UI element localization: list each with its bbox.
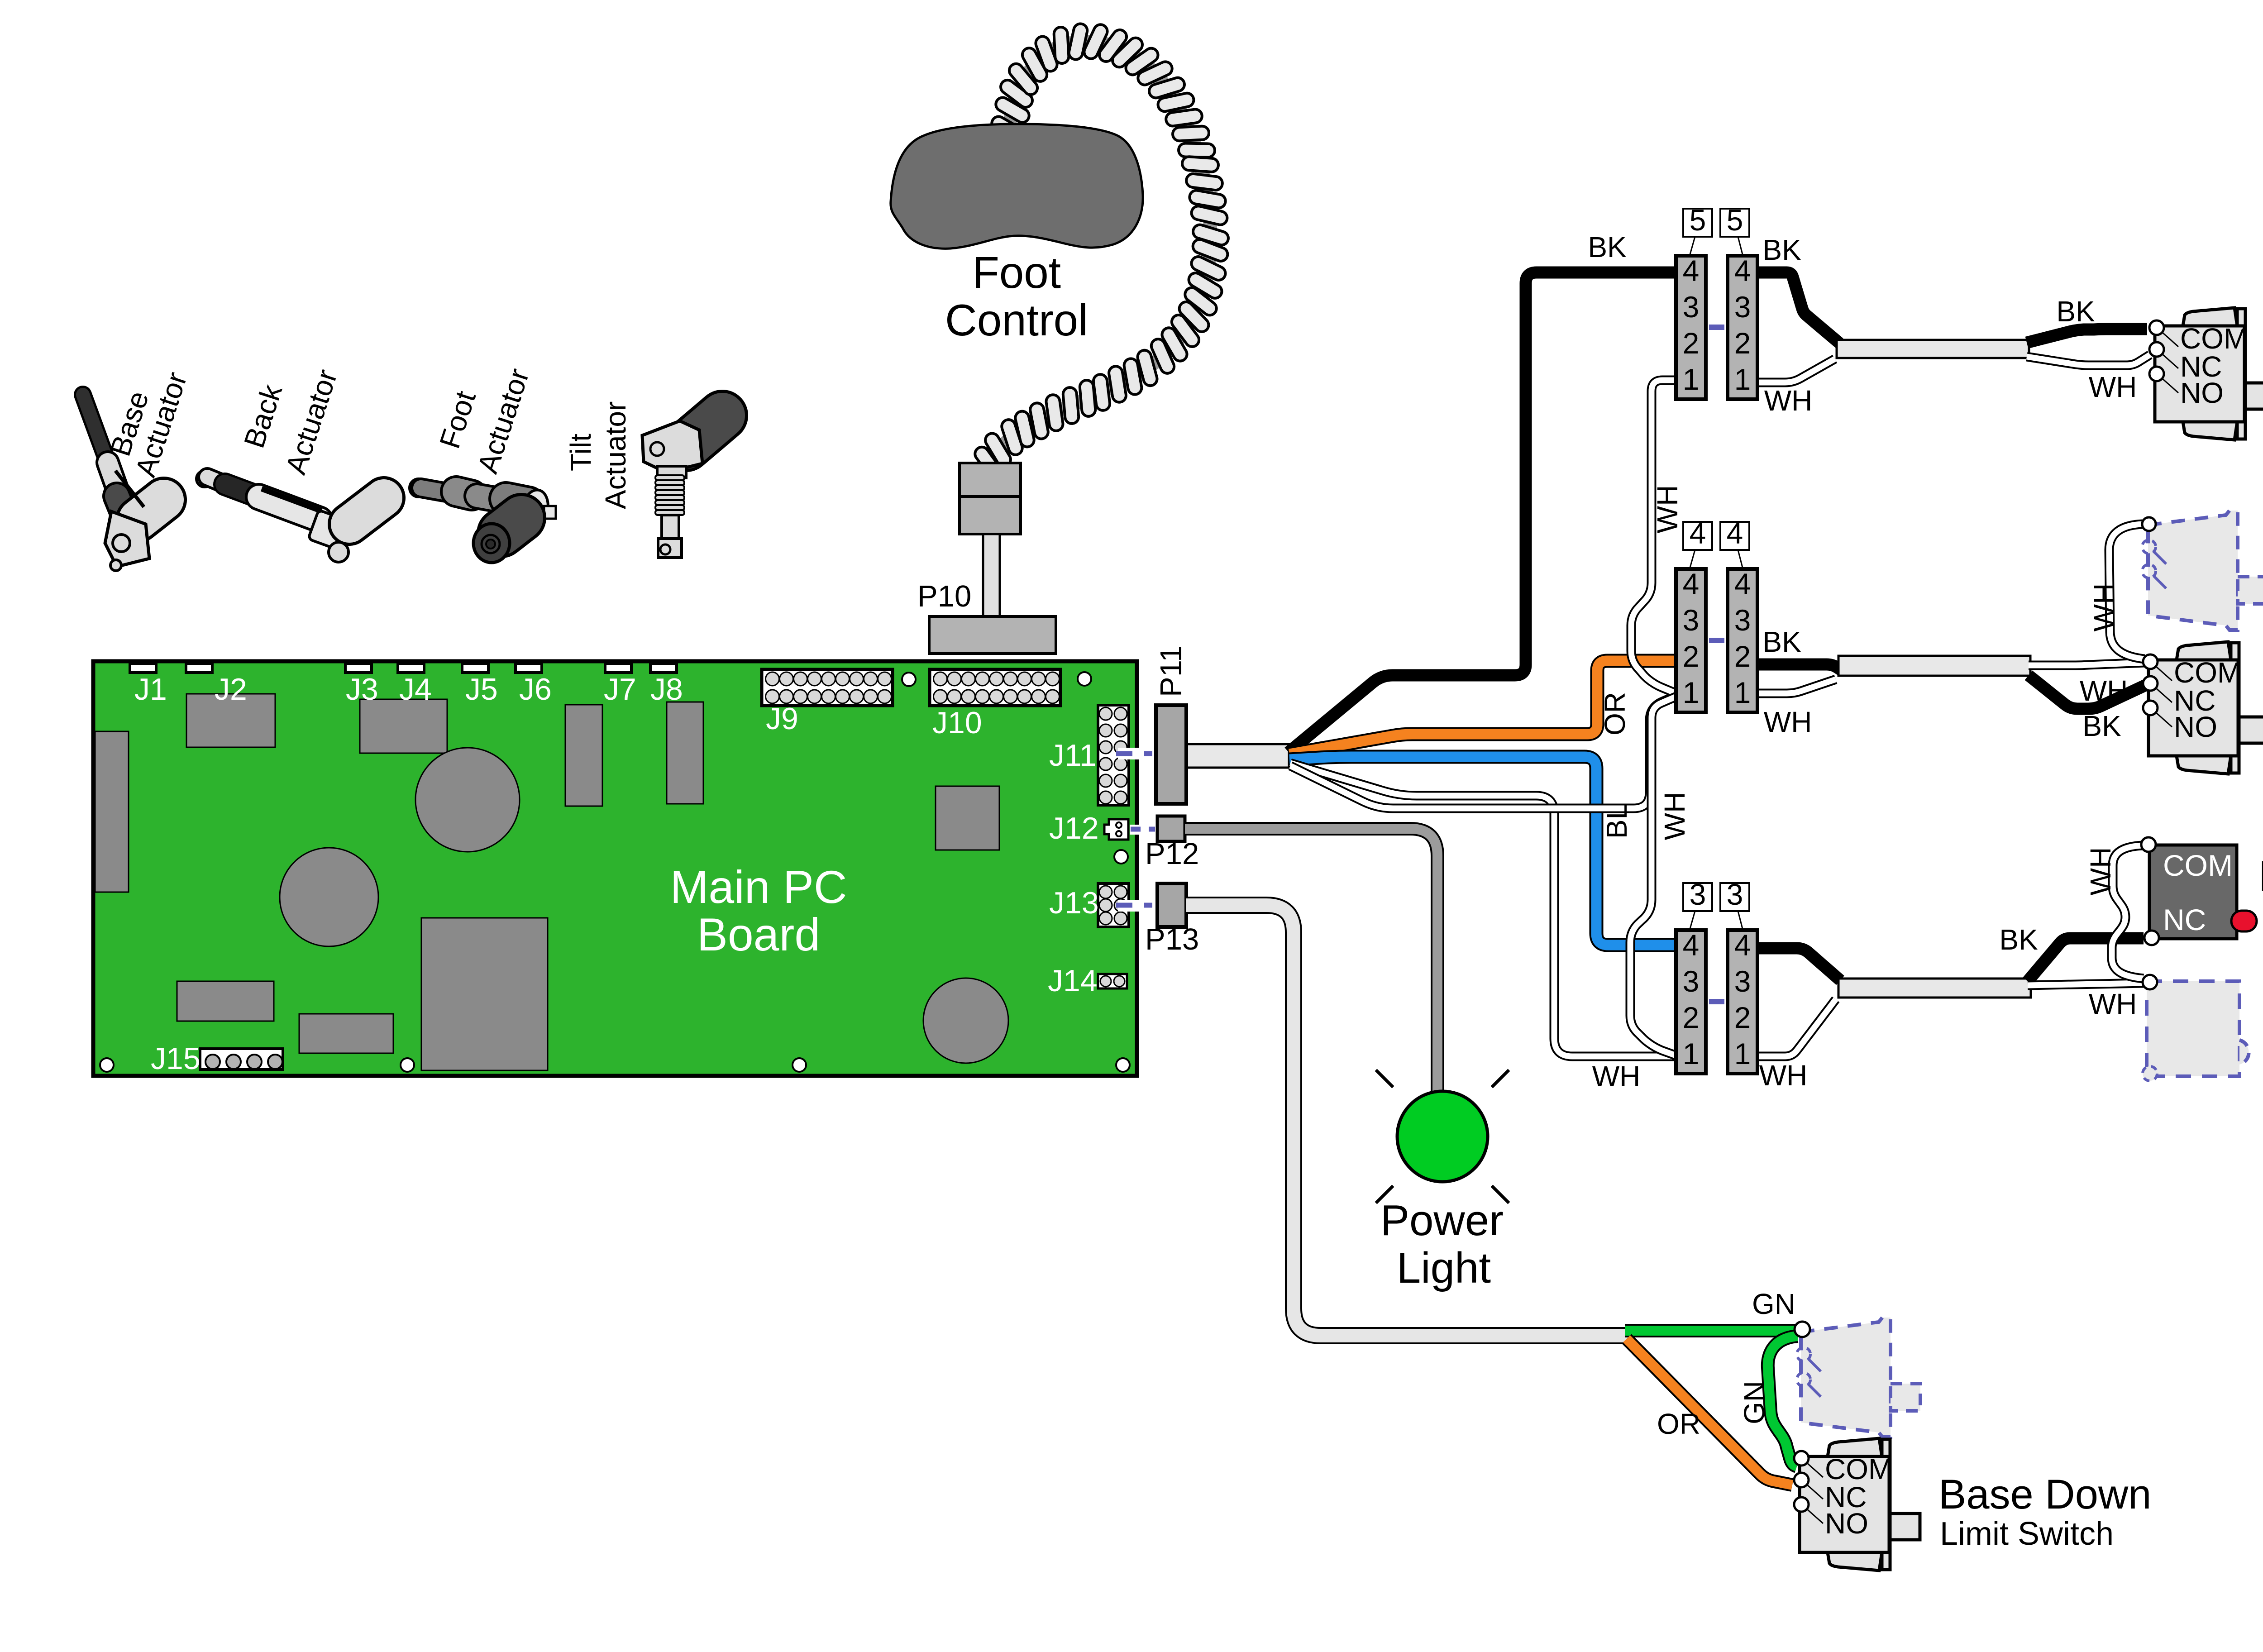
svg-text:Control: Control	[945, 295, 1088, 345]
svg-text:4: 4	[1683, 567, 1700, 601]
base down limit switch terminal COM	[1794, 1451, 1809, 1466]
svg-text:BL: BL	[1600, 803, 1633, 839]
svg-text:Foot Down: Foot Down	[2260, 668, 2263, 716]
svg-text:J5: J5	[465, 672, 498, 707]
svg-text:3: 3	[1683, 290, 1700, 324]
J11-P11 mating indicator	[1118, 748, 1156, 759]
svg-text:WH: WH	[1658, 792, 1691, 840]
mating dash 4	[1709, 638, 1724, 643]
J13-P13 mating indicator	[1118, 900, 1156, 912]
svg-text:Base Down: Base Down	[1938, 1471, 2151, 1518]
svg-text:WH: WH	[2080, 674, 2128, 707]
connector J6	[516, 664, 542, 673]
foot down limit switch terminal NO	[2143, 701, 2158, 715]
svg-text:OR: OR	[1657, 1408, 1700, 1440]
base actuator	[83, 395, 164, 571]
svg-text:WH: WH	[1651, 485, 1684, 534]
wire WH from P11 to connector 4 pin 1	[1290, 695, 1677, 808]
connector J3	[345, 664, 372, 673]
connector pair 3 right housing	[1728, 930, 1757, 1074]
wire WH foot cable to COM	[2029, 663, 2144, 665]
back up limit switch body	[2149, 845, 2237, 939]
id box 5 left	[1683, 209, 1712, 237]
tilt down limit switch plunger	[2245, 383, 2263, 409]
svg-text:P13: P13	[1145, 922, 1199, 956]
tilt down limit switch terminal NO	[2149, 367, 2164, 381]
svg-text:J11: J11	[1049, 738, 1097, 773]
connector J9	[762, 669, 893, 706]
connector J12	[1104, 819, 1128, 840]
svg-text:3: 3	[1690, 878, 1706, 911]
mating dash 5	[1709, 325, 1724, 330]
back switch cable	[1838, 979, 2031, 998]
tilt down limit switch terminal NC	[2149, 342, 2164, 357]
svg-text:J14: J14	[1048, 964, 1098, 998]
svg-text:1: 1	[1734, 1037, 1751, 1070]
svg-text:J6: J6	[519, 672, 552, 707]
svg-text:WH: WH	[2088, 583, 2120, 632]
svg-text:NO: NO	[2174, 711, 2217, 743]
svg-text:GN: GN	[1738, 1381, 1771, 1424]
svg-text:Back Up: Back Up	[2258, 852, 2263, 900]
wire gray from P12 to power light	[1185, 829, 1437, 1095]
svg-text:Tilt: Tilt	[564, 434, 597, 471]
base down limit switch top flap	[1828, 1438, 1882, 1456]
svg-text:J2: J2	[215, 672, 247, 707]
svg-text:1: 1	[1683, 363, 1700, 396]
id leader lines 4	[1690, 550, 1695, 568]
svg-text:2: 2	[1683, 1001, 1700, 1034]
svg-text:2: 2	[1734, 640, 1751, 673]
svg-text:2: 2	[1683, 640, 1700, 673]
svg-text:Actuator: Actuator	[599, 401, 632, 509]
foot down limit switch terminal COM	[2143, 654, 2158, 669]
connector J14	[1098, 974, 1127, 988]
id box 4 left	[1683, 522, 1712, 550]
svg-text:J8: J8	[650, 672, 683, 707]
base down limit switch bottom flap	[1828, 1552, 1882, 1571]
power light	[1397, 1091, 1488, 1182]
wire WH jumper connector 4 pin 1 to connector 3 pin 1	[1630, 696, 1678, 1056]
foot control pad	[891, 124, 1143, 248]
svg-text:WH: WH	[1764, 706, 1812, 738]
svg-text:3: 3	[1734, 603, 1751, 637]
connector pair 4 right housing	[1728, 569, 1757, 712]
svg-text:BK: BK	[1999, 923, 2038, 956]
connector pair 5 right housing	[1728, 256, 1757, 399]
svg-text:3: 3	[1683, 964, 1700, 998]
connector P11	[1156, 705, 1186, 804]
connector J10	[930, 669, 1060, 706]
base down limit switch plunger	[1890, 1514, 1920, 1540]
wire WH connector 3 to back cable	[1756, 999, 1836, 1056]
ghost switch foot down alt position	[2148, 511, 2238, 630]
foot switch cable	[1838, 656, 2030, 676]
back up red button	[2231, 911, 2257, 931]
svg-text:BK: BK	[1588, 231, 1626, 263]
foot down limit switch terminal NC	[2143, 676, 2158, 691]
wire gray from P13 to base down split	[1186, 905, 1628, 1336]
connector P10	[929, 616, 1056, 654]
svg-text:NO: NO	[2180, 377, 2224, 409]
svg-text:WH: WH	[2089, 988, 2137, 1020]
svg-text:J13: J13	[1049, 886, 1099, 920]
svg-text:NC: NC	[2163, 903, 2206, 936]
wire GN loop to base down COM	[1768, 1336, 1798, 1466]
id box 4 right	[1720, 522, 1749, 550]
wire WH from P11 outer run to connector 3 pin 1	[1290, 763, 1677, 1056]
ghost switch base down alt position	[1801, 1318, 1891, 1437]
back actuator	[196, 471, 384, 562]
wire OR from P11 to connector 4 pin 2	[1289, 661, 1678, 754]
svg-text:P10: P10	[917, 579, 971, 613]
tilt down limit switch bottom flap	[2183, 422, 2237, 440]
svg-text:4: 4	[1690, 516, 1706, 550]
connector J1	[130, 664, 156, 673]
back ghost WH terminal	[2143, 975, 2157, 989]
foot down limit switch right bar	[2231, 643, 2239, 773]
foot control cord connector	[960, 463, 1021, 497]
main PC board	[93, 661, 1137, 1076]
svg-text:Power: Power	[1380, 1196, 1504, 1245]
svg-text:5: 5	[1727, 203, 1743, 237]
svg-text:4: 4	[1727, 516, 1743, 550]
svg-text:J7: J7	[604, 672, 636, 707]
connector J15	[200, 1049, 283, 1070]
svg-text:4: 4	[1734, 567, 1751, 601]
wire WH loop foot COM to ghost	[2109, 524, 2144, 659]
svg-text:1: 1	[1734, 676, 1751, 709]
tilt switch cable	[1837, 340, 2029, 358]
svg-text:BK: BK	[2056, 295, 2095, 328]
id box 5 right	[1720, 209, 1749, 237]
wire OR to base down NC	[1627, 1339, 1792, 1485]
svg-text:P12: P12	[1145, 837, 1199, 871]
base down limit switch terminal NC	[1794, 1473, 1809, 1487]
wire BK connector 3 to back cable	[1756, 948, 1840, 980]
svg-text:COM: COM	[2163, 849, 2233, 882]
wire BK connector 4 to foot cable	[1756, 664, 1842, 671]
tilt actuator	[642, 415, 722, 558]
svg-text:J1: J1	[134, 672, 167, 707]
tilt down limit switch right bar	[2237, 309, 2245, 439]
svg-text:4: 4	[1683, 928, 1700, 962]
wire BK connector 5 to tilt cable	[1756, 272, 1839, 343]
svg-text:BK: BK	[1762, 234, 1801, 266]
J12-P12 mating indicator	[1130, 825, 1156, 835]
wire WH tilt cable to NC	[2027, 355, 2150, 365]
svg-text:BK: BK	[2082, 710, 2121, 742]
svg-text:4: 4	[1734, 928, 1751, 962]
foot down limit switch bottom flap	[2177, 756, 2231, 774]
svg-text:WH: WH	[1759, 1059, 1808, 1092]
svg-text:1: 1	[1734, 363, 1751, 396]
connector J7	[605, 664, 631, 673]
wire BK foot cable to NC	[2029, 675, 2145, 709]
foot down limit switch body	[2148, 660, 2238, 756]
ghost terminal back up	[2143, 1066, 2157, 1081]
svg-text:5: 5	[1690, 203, 1706, 237]
wire GN to base ghost terminal	[1625, 1324, 1796, 1337]
id leader lines 3	[1690, 911, 1695, 929]
svg-text:2: 2	[1734, 1001, 1751, 1034]
svg-text:4: 4	[1683, 254, 1700, 287]
svg-text:2: 2	[1683, 326, 1700, 360]
connector P12	[1157, 816, 1185, 841]
tilt down limit switch terminal COM	[2149, 320, 2164, 335]
svg-text:Main PC: Main PC	[670, 861, 847, 913]
svg-text:GN: GN	[1752, 1288, 1795, 1320]
power light rays	[1376, 1070, 1393, 1087]
id leader lines 5	[1690, 237, 1695, 254]
svg-text:3: 3	[1734, 290, 1751, 324]
tilt down limit switch top flap	[2183, 308, 2237, 326]
wire WH loop back ghost to COM	[2112, 845, 2144, 979]
svg-text:3: 3	[1734, 964, 1751, 998]
id box 3 right	[1720, 883, 1749, 911]
svg-text:J12: J12	[1049, 811, 1099, 845]
connector J11	[1098, 705, 1129, 805]
svg-text:WH: WH	[1764, 384, 1813, 417]
svg-text:Foot: Foot	[972, 248, 1061, 297]
base down limit switch body	[1800, 1456, 1889, 1552]
connector J13	[1098, 883, 1129, 927]
svg-text:J15: J15	[151, 1041, 201, 1076]
svg-text:BK: BK	[1762, 625, 1801, 658]
ghost switch back up alt position	[2147, 981, 2239, 1076]
connector P13	[1157, 883, 1186, 927]
base ghost terminal GN	[1795, 1322, 1810, 1337]
wire BK back cable to NC	[2028, 938, 2144, 981]
svg-text:1: 1	[1683, 1037, 1700, 1070]
svg-text:3: 3	[1727, 878, 1743, 911]
svg-text:2: 2	[1734, 326, 1751, 360]
foot ghost WH terminal ball	[2142, 517, 2156, 531]
svg-text:J4: J4	[399, 672, 432, 707]
connector J2	[186, 664, 212, 673]
foot ghost WH terminal	[2142, 517, 2156, 531]
svg-text:Limit Switch: Limit Switch	[1940, 1516, 2114, 1552]
svg-text:Board: Board	[697, 909, 820, 960]
wire BK tilt cable to COM	[2027, 329, 2147, 343]
base down limit switch right bar	[1882, 1439, 1890, 1570]
foot down limit switch plunger	[2239, 717, 2263, 743]
connector J8	[650, 664, 677, 673]
connector pair 4 left housing	[1676, 569, 1706, 712]
wire WH connector 5 to tilt cable	[1756, 359, 1835, 382]
foot down limit switch top flap	[2177, 642, 2231, 660]
svg-text:P11: P11	[1154, 645, 1188, 697]
wire BK from P11 to connector 5 pin 4	[1289, 272, 1677, 752]
wire WH back cable to ghost	[2028, 983, 2144, 985]
board mounting holes	[902, 673, 916, 686]
svg-text:4: 4	[1734, 254, 1751, 287]
svg-text:OR: OR	[1599, 692, 1631, 735]
foot control coiled cord	[988, 42, 1211, 464]
svg-text:J3: J3	[346, 672, 378, 707]
foot control connector stem	[983, 534, 1000, 616]
svg-text:WH: WH	[1592, 1060, 1641, 1093]
board components	[95, 731, 129, 892]
connector pair 5 left housing	[1676, 256, 1706, 399]
harness trunk from P11	[1187, 744, 1289, 768]
mating dash 3	[1709, 999, 1724, 1004]
base down limit switch terminal NO	[1794, 1497, 1809, 1512]
svg-text:NO: NO	[1825, 1507, 1868, 1540]
connector pair 3 left housing	[1676, 930, 1706, 1074]
svg-text:J9: J9	[766, 702, 798, 736]
tilt down limit switch body	[2155, 326, 2244, 422]
svg-text:Light: Light	[1397, 1244, 1491, 1292]
back up terminal COM	[2141, 837, 2156, 852]
connector J4	[398, 664, 424, 673]
svg-text:WH: WH	[2089, 371, 2137, 403]
svg-text:1: 1	[1683, 676, 1700, 709]
foot actuator	[410, 479, 556, 563]
connector J5	[462, 664, 488, 673]
wire WH connector 4 to foot cable	[1756, 679, 1836, 693]
svg-text:WH: WH	[2084, 847, 2117, 896]
wire WH jumper connector 5 pin 1 to connector 4 pin 1	[1631, 380, 1678, 694]
svg-text:3: 3	[1683, 603, 1700, 637]
wire BL from P11 to connector 3 pin 4	[1289, 757, 1678, 945]
id box 3 left	[1683, 883, 1712, 911]
svg-text:J10: J10	[932, 706, 982, 740]
back up terminal NC	[2144, 931, 2159, 945]
